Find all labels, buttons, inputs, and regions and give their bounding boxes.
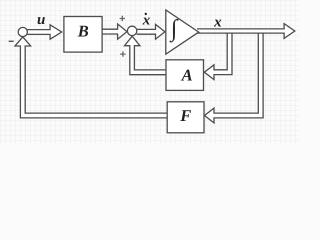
wire tap2 from node x down to F input [205,31,264,123]
plus sign above S2 [120,16,125,21]
summing junction S1 [18,27,27,36]
svg-text:u: u [37,12,45,28]
summing junction S2 [127,26,136,35]
minus sign at S1 [9,40,14,42]
svg-text:∫: ∫ [169,16,179,43]
block F [167,102,204,133]
op-amp integrator triangle [166,10,199,54]
block B [64,17,102,53]
svg-text:x: x [213,14,222,30]
wire F output to summing junction S1 [15,37,168,118]
wire tap1 from node x down to A input [204,31,232,80]
block A [166,60,204,91]
wire B to S2 [102,24,127,39]
plus sign below S2 [120,51,125,56]
svg-text:A: A [181,65,193,84]
wire integrator output x [197,24,295,39]
wire u arrow S1 to B [27,25,61,39]
svg-text:B: B [77,21,89,40]
wire S2 to integrator [137,24,165,39]
svg-text:F: F [179,106,191,125]
wire A output to summing junction S2 [125,36,167,74]
